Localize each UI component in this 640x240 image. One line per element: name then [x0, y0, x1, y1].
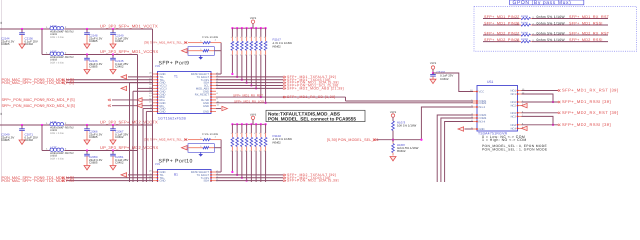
svg-text:SFP+_PON_MAC_PON9_RXD_MD1_N [5: SFP+_PON_MAC_PON9_RXD_MD1_N [5] [2, 104, 75, 108]
svg-text:L176: L176 [50, 120, 57, 124]
svg-text:1: 1 [245, 36, 246, 39]
svg-text:IN1-2: IN1-2 [479, 106, 486, 109]
svg-text:GND: GND [203, 111, 209, 114]
svg-text:IN3-4: IN3-4 [479, 121, 486, 124]
svg-text:SFP+_MD1_PIN27: SFP+_MD1_PIN27 [484, 15, 520, 19]
svg-text:C0402: C0402 [440, 77, 449, 81]
svg-text:SFP+_MD1_PIN28: SFP+_MD1_PIN28 [484, 21, 520, 25]
svg-text:SFP+_MD1_RX_RST: SFP+_MD1_RX_RST [569, 15, 610, 19]
svg-text:[39] SFP+_MD1_RATE_SEL_R1: [39] SFP+_MD1_RATE_SEL_R1 [144, 41, 188, 45]
svg-text:C0402: C0402 [25, 42, 34, 46]
svg-text:1GT1562xF52B: 1GT1562xF52B [158, 117, 187, 121]
svg-text:1: 1 [245, 132, 246, 135]
svg-text:1: 1 [259, 132, 260, 135]
svg-text:0ohm 5% 1/16W: 0ohm 5% 1/16W [537, 31, 566, 35]
svg-text:1: 1 [250, 36, 251, 39]
svg-text:C0805: C0805 [1, 42, 10, 46]
svg-text:SFP+_MD1_RX_RST [39]: SFP+_MD1_RX_RST [39] [562, 88, 619, 93]
svg-text:SFP+PON_MD2_SDA [5,39]: SFP+PON_MD2_SDA [5,39] [287, 179, 339, 182]
svg-text:NC2: NC2 [511, 105, 517, 108]
svg-text:2: 2 [254, 53, 255, 56]
svg-text:NC3: NC3 [511, 115, 517, 118]
svg-text:2: 2 [250, 150, 251, 153]
svg-text:GND: GND [203, 105, 209, 108]
svg-text:1 = High: NO <-> COM: 1 = High: NO <-> COM [482, 138, 527, 142]
svg-text:UP_3P3_SFP+_MD1_VCCTX: UP_3P3_SFP+_MD1_VCCTX [100, 23, 158, 28]
svg-text:R0402: R0402 [273, 44, 282, 48]
svg-text:1: 1 [235, 36, 236, 39]
svg-text:R1091: R1091 [521, 21, 529, 24]
svg-text:B1: B1 [174, 173, 178, 177]
svg-text:C0402: C0402 [115, 39, 124, 43]
svg-text:PON_MODEL_SEL : 1, GPON MODE: PON_MODEL_SEL : 1, GPON MODE [482, 147, 548, 151]
svg-text:PP9: PP9 [155, 163, 160, 166]
svg-text:0 5% 1/16W: 0 5% 1/16W [202, 133, 218, 136]
svg-text:10K 1% 1/16W: 10K 1% 1/16W [397, 124, 417, 128]
svg-text:R1093: R1093 [521, 15, 529, 18]
svg-text:SFP+ Port9: SFP+ Port9 [159, 61, 190, 67]
svg-text:SFP+_MD1_RX_RST: SFP+_MD1_RX_RST [233, 94, 263, 98]
svg-text:V3P3: V3P3 [250, 113, 257, 116]
svg-text:SFP+_MD1_RX_LOS: SFP+_MD1_RX_LOS [234, 99, 264, 103]
svg-text:GND: GND [160, 111, 166, 114]
svg-text:0ohm 5% 1/16W: 0ohm 5% 1/16W [537, 21, 566, 25]
svg-text:NO4: NO4 [510, 124, 516, 127]
svg-text:SFP+_MD2_RX_RST [39]: SFP+_MD2_RX_RST [39] [562, 110, 619, 115]
svg-text:NC4: NC4 [511, 127, 517, 130]
svg-text:SFP+_MD2_PIN27: SFP+_MD2_PIN27 [484, 31, 520, 35]
svg-text:1: 1 [231, 36, 232, 39]
svg-text:L177: L177 [50, 145, 57, 149]
svg-text:1: 1 [240, 132, 241, 135]
svg-text:COM2: COM2 [479, 102, 487, 105]
svg-text:2: 2 [259, 53, 260, 56]
svg-text:UP_3P3_SFP+_MD2_VCCTX: UP_3P3_SFP+_MD2_VCCTX [100, 119, 158, 124]
svg-text:DCR = 0.03o: DCR = 0.03o [50, 36, 65, 39]
svg-text:R1092: R1092 [521, 31, 529, 34]
svg-text:1: 1 [264, 36, 265, 39]
svg-text:C0402: C0402 [115, 135, 124, 139]
svg-text:2: 2 [240, 150, 241, 153]
svg-text:V3P3: V3P3 [430, 62, 437, 65]
svg-text:1: 1 [231, 132, 232, 135]
svg-text:VCC: VCC [479, 91, 485, 94]
svg-text:1: 1 [240, 36, 241, 39]
svg-text:1: 1 [235, 132, 236, 135]
svg-text:2: 2 [250, 53, 251, 56]
svg-text:SFP+_MD1_RSSI [39]: SFP+_MD1_RSSI [39] [562, 99, 611, 104]
svg-text:U51: U51 [487, 80, 493, 84]
svg-text:DCR = 0.03o: DCR = 0.03o [50, 132, 65, 135]
svg-text:SFP+_MD2_PIN28: SFP+_MD2_PIN28 [484, 38, 520, 42]
svg-text:C0805: C0805 [1, 138, 10, 142]
svg-text:DCR = 0.03o: DCR = 0.03o [50, 62, 65, 65]
svg-text:C0402: C0402 [115, 65, 124, 69]
svg-text:R0402: R0402 [397, 149, 406, 153]
svg-text:SFP+_MD1_RX_SD [1,39]: SFP+_MD1_RX_SD [1,39] [287, 95, 336, 99]
svg-text:C0805: C0805 [89, 161, 98, 165]
svg-text:V3P3: V3P3 [250, 17, 257, 20]
svg-text:1: 1 [264, 132, 265, 135]
svg-text:NO3: NO3 [510, 112, 516, 115]
svg-text:R1090: R1090 [521, 38, 529, 41]
svg-text:0 5% 1/16W: 0 5% 1/16W [202, 36, 218, 39]
svg-text:2: 2 [240, 53, 241, 56]
svg-text:2: 2 [259, 150, 260, 153]
svg-text:0ohm 5% 1/16W: 0ohm 5% 1/16W [537, 38, 566, 42]
svg-text:SFP+_MD2_RSSI: SFP+_MD2_RSSI [569, 38, 603, 42]
svg-text:L103: L103 [50, 24, 57, 28]
svg-text:RX_RESET: RX_RESET [195, 93, 210, 96]
svg-text:SFP+ Port10: SFP+ Port10 [159, 159, 193, 165]
svg-text:2: 2 [235, 150, 236, 153]
svg-text:V3P3: V3P3 [390, 111, 397, 114]
svg-text:SFP+_MD2_RSSI [39]: SFP+_MD2_RSSI [39] [562, 122, 611, 127]
svg-text:1: 1 [250, 132, 251, 135]
svg-text:2: 2 [231, 53, 232, 56]
svg-text:PON_MAC_SFP+_PON9_TD0_MD1_P [5: PON_MAC_SFP+_PON9_TD0_MD1_P [5] [2, 81, 74, 85]
svg-text:PP8: PP8 [155, 65, 160, 68]
svg-text:PON_MODEL_SEL connect to PCA95: PON_MODEL_SEL connect to PCA9555 [268, 116, 356, 121]
svg-text:NO2: NO2 [510, 101, 516, 104]
svg-text:1: 1 [254, 132, 255, 135]
svg-text:1: 1 [254, 36, 255, 39]
svg-text:1: 1 [259, 36, 260, 39]
svg-text:DCR = 0.03o: DCR = 0.03o [50, 158, 65, 161]
svg-text:NC1: NC1 [511, 93, 517, 96]
svg-text:SFP+_MD1_MOD_ABS [21,39]: SFP+_MD1_MOD_ABS [21,39] [287, 86, 344, 90]
svg-text:2: 2 [264, 150, 265, 153]
svg-text:R0402: R0402 [273, 140, 282, 144]
svg-text:GPON (By pass Mux): GPON (By pass Mux) [513, 0, 572, 6]
svg-text:2: 2 [264, 53, 265, 56]
svg-text:T1: T1 [174, 75, 178, 79]
svg-text:[5,39] PON_MODEL_SEL_M1: [5,39] PON_MODEL_SEL_M1 [327, 138, 379, 142]
svg-text:2: 2 [231, 150, 232, 153]
svg-text:L102: L102 [50, 49, 57, 53]
svg-text:UP_3P3_SFP+_MD1_VCCRX: UP_3P3_SFP+_MD1_VCCRX [100, 49, 158, 54]
svg-text:C0402: C0402 [25, 138, 34, 142]
svg-text:2: 2 [245, 150, 246, 153]
svg-text:[39] SFP+_MD2_RATE_SEL_R1: [39] SFP+_MD2_RATE_SEL_R1 [144, 138, 188, 142]
svg-text:C0402: C0402 [115, 161, 124, 165]
svg-text:SFP+_MD1_RSSI: SFP+_MD1_RSSI [569, 21, 603, 25]
svg-text:C0805: C0805 [89, 39, 98, 43]
svg-text:2: 2 [254, 150, 255, 153]
svg-text:0ohm 5% 1/16W: 0ohm 5% 1/16W [537, 15, 566, 19]
svg-text:2: 2 [235, 53, 236, 56]
svg-text:SFP+_PON_MAC_PON9_RXD_MD1_P [5: SFP+_PON_MAC_PON9_RXD_MD1_P [5] [2, 98, 75, 102]
svg-text:C0805: C0805 [89, 135, 98, 139]
svg-text:2: 2 [245, 53, 246, 56]
svg-text:PON_MAC_SFP+_PON9_TD1_MD2_P [5: PON_MAC_SFP+_PON9_TD1_MD2_P [5] [2, 179, 74, 182]
svg-text:SFP+_MD2_RX_RST: SFP+_MD2_RX_RST [569, 31, 610, 35]
svg-text:C0805: C0805 [89, 65, 98, 69]
